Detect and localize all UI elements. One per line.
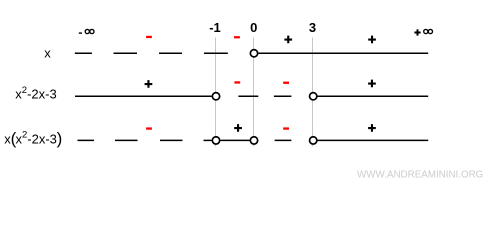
label -infinity minus stroke — [79, 32, 82, 33]
svg-text:x: x — [44, 45, 51, 60]
row3 sign minus 1 (red) — [146, 127, 152, 129]
row3 dashed line segment middle (negative part) — [275, 139, 292, 141]
svg-text:3: 3 — [309, 20, 316, 35]
svg-text:x2-2x-3: x2-2x-3 — [16, 130, 57, 147]
svg-text:0: 0 — [250, 20, 257, 35]
row3 open circle at x=-1 — [212, 137, 219, 144]
row1 sign plus 1 — [284, 36, 292, 44]
svg-text:x2-2x-3: x2-2x-3 — [15, 85, 56, 102]
svg-text:-1: -1 — [209, 20, 221, 35]
row2 dashed line segment (negative part) — [238, 95, 291, 97]
row1 sign minus 2 (red) — [234, 36, 240, 38]
row2 sign minus 1 (red) — [234, 81, 240, 83]
row2 sign plus 1 — [145, 80, 153, 88]
row2 sign minus 2 (red) — [283, 82, 289, 84]
row3 open circle at x=3 — [310, 137, 317, 144]
label +infinity plus stroke — [414, 29, 420, 35]
label +infinity symbol — [424, 29, 433, 33]
row3 open circle at x=0 — [250, 137, 257, 144]
row2 solid line segment right (positive part) — [318, 95, 429, 97]
row1 open circle at x=0 — [250, 50, 257, 57]
row1 dashed line segment (negative part) — [75, 52, 228, 54]
vertical guide line at x=-1 — [215, 38, 217, 147]
row1 sign plus 2 — [368, 36, 376, 44]
row2 sign plus 2 — [368, 80, 376, 88]
row2 open circle at x=3 — [310, 93, 317, 100]
vertical guide line at x=3 — [312, 38, 314, 147]
row3 dashed line segment left (negative part) — [78, 139, 212, 141]
row3 solid line segment middle (positive part) — [220, 139, 249, 141]
row2 open circle at x=-1 — [212, 93, 219, 100]
svg-text:WWW.ANDREAMININI.ORG: WWW.ANDREAMININI.ORG — [357, 170, 483, 181]
svg-text:): ) — [57, 129, 63, 148]
row3 sign plus 1 — [234, 124, 242, 132]
row3 solid line segment right (positive part) — [318, 139, 429, 141]
row2 solid line segment left (positive part) — [75, 95, 212, 97]
row3 sign minus 2 (red) — [283, 127, 289, 129]
vertical guide line at x=0 — [253, 38, 255, 147]
row1 sign minus 1 (red) — [146, 36, 152, 38]
row1 solid line segment (positive part) — [258, 52, 428, 54]
row3 sign plus 2 — [368, 124, 376, 132]
label -infinity symbol — [85, 29, 94, 33]
